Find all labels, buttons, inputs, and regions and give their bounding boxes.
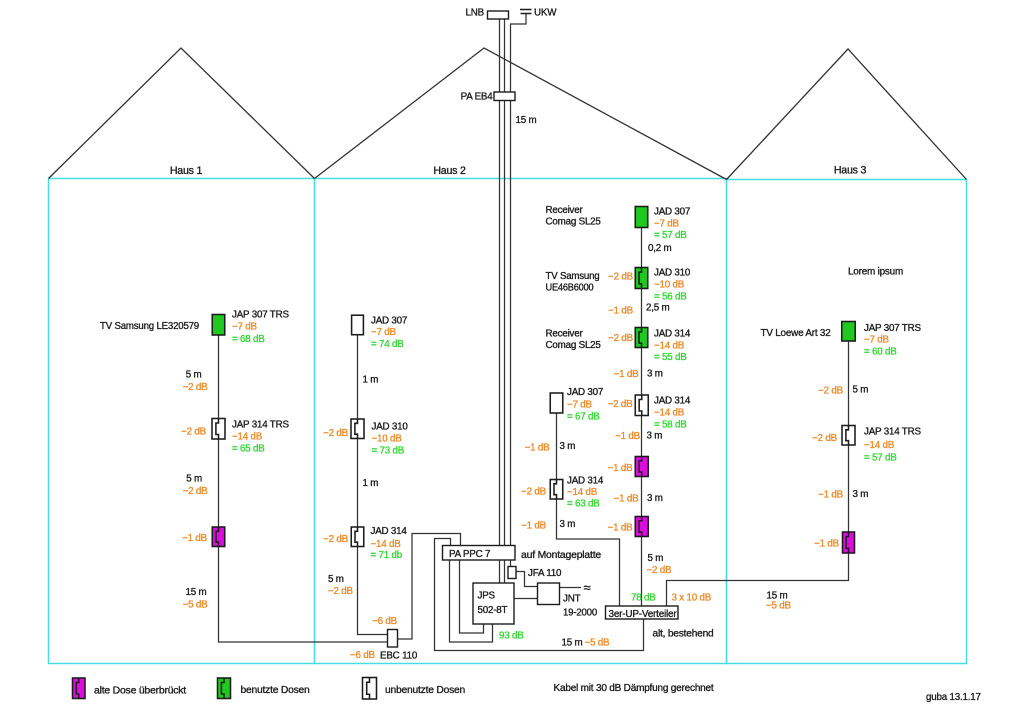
house Haus 2 outline (315, 179, 727, 664)
svg-text:−2 dB: −2 dB (608, 399, 634, 410)
wire Haus 2 right outlet chain to 3er-UP-Verteiler (641, 228, 643, 607)
svg-text:≈: ≈ (584, 580, 591, 595)
svg-text:15 m: 15 m (562, 638, 583, 649)
svg-text:JFA 110: JFA 110 (528, 568, 562, 579)
svg-text:−14 dB: −14 dB (654, 408, 685, 419)
svg-text:3 m: 3 m (853, 489, 869, 500)
svg-text:−7 dB: −7 dB (371, 327, 397, 338)
roof Haus 1 (49, 48, 315, 179)
svg-text:LNB: LNB (466, 8, 485, 19)
outlet JAP 307 TRS Haus 3 (used) (842, 322, 856, 342)
outlet JAP 314 TRS Haus 1 (unused) (212, 419, 225, 440)
svg-text:Comag SL25: Comag SL25 (546, 217, 602, 228)
wire UKW antenna cable to JFA 110 (511, 14, 527, 567)
svg-text:JAD 314: JAD 314 (371, 526, 408, 537)
svg-text:−5 dB: −5 dB (183, 600, 209, 611)
svg-text:−14 dB: −14 dB (567, 487, 598, 498)
svg-text:−14 dB: −14 dB (654, 341, 685, 352)
svg-text:−2 dB: −2 dB (812, 433, 838, 444)
svg-text:UKW: UKW (534, 8, 557, 19)
svg-text:PA PPC 7: PA PPC 7 (449, 549, 490, 560)
svg-text:5 m: 5 m (853, 385, 869, 396)
svg-text:JNT: JNT (563, 594, 581, 605)
svg-text:−2 dB: −2 dB (608, 333, 634, 344)
svg-text:UE46B6000: UE46B6000 (546, 283, 595, 294)
svg-text:−14 dB: −14 dB (232, 432, 263, 443)
svg-text:93 dB: 93 dB (499, 631, 524, 642)
svg-text:JAD 307: JAD 307 (654, 207, 690, 218)
svg-text:−7 dB: −7 dB (232, 322, 258, 333)
svg-text:3 m: 3 m (647, 431, 663, 442)
svg-text:−7 dB: −7 dB (864, 335, 890, 346)
svg-text:Haus 1: Haus 1 (170, 165, 203, 177)
wire JPS 502-8T to JNT power (514, 598, 538, 600)
wire sat cable A from LNB to JPS 502-8T (499, 19, 501, 583)
svg-text:15 m: 15 m (186, 587, 207, 598)
svg-text:JAP 307 TRS: JAP 307 TRS (232, 310, 289, 321)
svg-text:= 57 dB: = 57 dB (864, 453, 897, 464)
svg-text:3 m: 3 m (560, 519, 576, 530)
outlet old bridged outlet Haus 2 right lower (635, 517, 648, 537)
outlet JAD 314 Haus 2 right (used) (635, 328, 648, 348)
house Haus 1 outline (49, 179, 315, 664)
svg-text:JAP 314 TRS: JAP 314 TRS (232, 420, 289, 431)
svg-text:5 m: 5 m (186, 370, 202, 381)
svg-text:19-2000: 19-2000 (563, 608, 598, 619)
outlet old bridged outlet Haus 1 (212, 527, 225, 547)
svg-text:3er-UP-Verteiler: 3er-UP-Verteiler (609, 609, 678, 620)
svg-text:−1 dB: −1 dB (615, 431, 641, 442)
svg-text:−1 dB: −1 dB (182, 533, 208, 544)
svg-text:JAD 314: JAD 314 (654, 329, 691, 340)
PA EB4 earthing block (494, 92, 515, 101)
wire 15 m feed PA PPC 7 to 3er-UP-Verteiler (435, 539, 644, 651)
svg-text:JAD 310: JAD 310 (372, 422, 409, 433)
PA PPC 7 earthing rail (443, 546, 516, 561)
svg-text:Haus 3: Haus 3 (834, 165, 867, 177)
svg-text:guba 13.1.17: guba 13.1.17 (926, 692, 981, 703)
svg-text:JAD 314: JAD 314 (654, 396, 691, 407)
svg-text:−1 dB: −1 dB (521, 521, 547, 532)
3er-UP-Verteiler box (606, 606, 679, 619)
svg-text:= 60 dB: = 60 dB (864, 347, 897, 358)
svg-text:3 m: 3 m (647, 369, 663, 380)
legend symbol old bridged outlet (73, 678, 86, 699)
svg-text:−2 dB: −2 dB (183, 486, 209, 497)
wire EBC 110 to PA PPC 7 (398, 534, 461, 640)
antenna UKW dipole symbol (520, 10, 532, 14)
svg-text:JAD 307: JAD 307 (567, 387, 603, 398)
svg-text:Lorem ipsum: Lorem ipsum (848, 267, 903, 278)
EBC 110 splitter (388, 630, 398, 648)
wire loop PA PPC 7 to JPS input 2 (460, 560, 484, 633)
svg-text:Receiver: Receiver (546, 329, 584, 340)
svg-text:= 55 dB: = 55 dB (654, 352, 687, 363)
svg-text:−1 dB: −1 dB (608, 306, 634, 317)
outlet JAP 307 TRS Haus 1 (used) (212, 315, 225, 336)
svg-text:−2 dB: −2 dB (521, 487, 547, 498)
svg-text:= 63 dB: = 63 dB (567, 499, 600, 510)
svg-text:−10 dB: −10 dB (372, 434, 403, 445)
wire JNT mains lead (560, 587, 582, 589)
svg-text:−7 dB: −7 dB (654, 219, 680, 230)
svg-text:5 m: 5 m (328, 574, 344, 585)
JNT 19-2000 power supply (538, 583, 560, 605)
svg-text:−1 dB: −1 dB (814, 539, 840, 550)
wire Haus 2 middle outlet chain to 3er-UP-Verteiler (557, 414, 620, 607)
svg-text:TV Samsung: TV Samsung (546, 271, 600, 282)
JFA 110 power inserter (508, 567, 516, 579)
house Haus 3 outline (727, 180, 967, 664)
svg-text:3 m: 3 m (560, 441, 576, 452)
svg-text:= 56 dB: = 56 dB (654, 292, 687, 303)
svg-text:JPS: JPS (478, 591, 496, 602)
svg-text:−2 dB: −2 dB (323, 534, 349, 545)
svg-text:−2 dB: −2 dB (183, 382, 209, 393)
wire loop PA PPC 7 to JPS input 1 (450, 560, 493, 642)
JPS 502-8T multiswitch (473, 583, 514, 624)
svg-text:Haus 2: Haus 2 (433, 165, 466, 177)
outlet JAD 314 Haus 2 left (unused) (351, 527, 364, 547)
svg-text:−10 dB: −10 dB (654, 280, 685, 291)
svg-text:auf Montageplatte: auf Montageplatte (521, 550, 602, 561)
svg-text:−2 dB: −2 dB (328, 586, 354, 597)
svg-text:TV Samsung LE320579: TV Samsung LE320579 (100, 321, 199, 332)
outlet JAD 307 Haus 2 right (used) (635, 207, 648, 228)
svg-text:= 65 dB: = 65 dB (232, 444, 265, 455)
svg-text:−14 dB: −14 dB (864, 440, 895, 451)
wire Haus 2 left outlet chain to EBC 110 (358, 333, 388, 635)
svg-text:= 58 dB: = 58 dB (654, 420, 687, 431)
svg-text:3 m: 3 m (647, 493, 663, 504)
svg-text:2,5 m: 2,5 m (646, 303, 670, 314)
svg-text:−1 dB: −1 dB (818, 490, 844, 501)
legend symbol unused outlet (363, 678, 377, 700)
svg-text:−1 dB: −1 dB (608, 523, 634, 534)
svg-text:−14 dB: −14 dB (371, 539, 402, 550)
svg-text:−1 dB: −1 dB (614, 369, 640, 380)
svg-text:JAD 307: JAD 307 (371, 315, 407, 326)
svg-text:−2 dB: −2 dB (818, 386, 844, 397)
svg-text:1 m: 1 m (363, 478, 379, 489)
svg-text:= 67 dB: = 67 dB (567, 412, 600, 423)
svg-text:−2 dB: −2 dB (323, 428, 349, 439)
svg-text:= 68 dB: = 68 dB (232, 334, 265, 345)
svg-text:5 m: 5 m (648, 553, 664, 564)
svg-text:3 x 10 dB: 3 x 10 dB (672, 593, 712, 604)
outlet JAD 307 Haus 2 middle (unused) (550, 393, 563, 413)
outlet JAD 314 Haus 2 right (unused) (635, 395, 648, 416)
outlet old bridged outlet Haus 3 (843, 532, 855, 553)
svg-text:PA EB4: PA EB4 (461, 92, 494, 103)
svg-text:502-8T: 502-8T (478, 605, 508, 616)
svg-text:TV Loewe Art 32: TV Loewe Art 32 (761, 328, 831, 339)
svg-text:−2 dB: −2 dB (647, 565, 673, 576)
svg-text:−1 dB: −1 dB (614, 494, 640, 505)
wire sat cable B from LNB to JPS 502-8T (504, 19, 506, 583)
outlet JAD 314 Haus 2 middle (unused) (550, 480, 563, 500)
svg-text:JAP 307 TRS: JAP 307 TRS (864, 323, 921, 334)
svg-text:JAD 314: JAD 314 (567, 476, 604, 487)
outlet JAD 310 Haus 2 right (used) (635, 268, 648, 289)
svg-text:JAP 314 TRS: JAP 314 TRS (864, 427, 921, 438)
legend symbol used outlet (218, 678, 231, 699)
wire Haus 3 outlet chain to 3er-UP-Verteiler (667, 341, 849, 606)
outlet JAD 310 Haus 2 left (unused) (351, 419, 364, 439)
svg-text:Kabel mit 30 dB Dämpfung gerec: Kabel mit 30 dB Dämpfung gerechnet (554, 683, 714, 694)
svg-text:EBC 110: EBC 110 (380, 651, 418, 662)
svg-text:5 m: 5 m (186, 474, 202, 485)
roof Haus 2 (315, 48, 727, 180)
svg-text:15 m: 15 m (516, 115, 537, 126)
svg-text:1 m: 1 m (363, 375, 379, 386)
svg-text:= 74 dB: = 74 dB (371, 339, 404, 350)
wire Haus 1 outlet chain to EBC 110 (219, 335, 399, 642)
outlet JAD 307 Haus 2 left (unused) (352, 315, 364, 335)
svg-text:−1 dB: −1 dB (525, 443, 551, 454)
svg-text:−1 dB: −1 dB (608, 463, 634, 474)
svg-text:−5 dB: −5 dB (585, 638, 611, 649)
svg-text:JAD 310: JAD 310 (654, 268, 691, 279)
svg-text:benutzte Dosen: benutzte Dosen (241, 685, 310, 696)
svg-text:alt, bestehend: alt, bestehend (653, 629, 714, 640)
svg-text:−7 dB: −7 dB (567, 400, 593, 411)
svg-text:−5 dB: −5 dB (766, 601, 792, 612)
svg-text:= 73 dB: = 73 dB (372, 446, 405, 457)
svg-text:alte Dose überbrückt: alte Dose überbrückt (94, 686, 186, 697)
wire JFA 110 to JNT (516, 572, 538, 587)
svg-text:Comag SL25: Comag SL25 (546, 340, 602, 351)
svg-text:−6 dB: −6 dB (372, 616, 398, 627)
LNB box (488, 11, 509, 19)
svg-text:−2 dB: −2 dB (608, 272, 634, 283)
svg-text:−2 dB: −2 dB (181, 427, 207, 438)
svg-text:−6 dB: −6 dB (350, 650, 376, 661)
svg-text:0,2 m: 0,2 m (648, 243, 672, 254)
outlet old bridged outlet Haus 2 right upper (635, 457, 648, 477)
svg-text:Receiver: Receiver (546, 205, 584, 216)
svg-text:= 57 dB: = 57 dB (654, 230, 687, 241)
outlet JAP 314 TRS Haus 3 (unused) (842, 426, 855, 446)
svg-text:= 71 db: = 71 db (371, 550, 403, 561)
svg-text:unbenutzte Dosen: unbenutzte Dosen (385, 685, 465, 696)
roof Haus 3 (727, 49, 967, 180)
svg-text:78 dB: 78 dB (631, 593, 656, 604)
